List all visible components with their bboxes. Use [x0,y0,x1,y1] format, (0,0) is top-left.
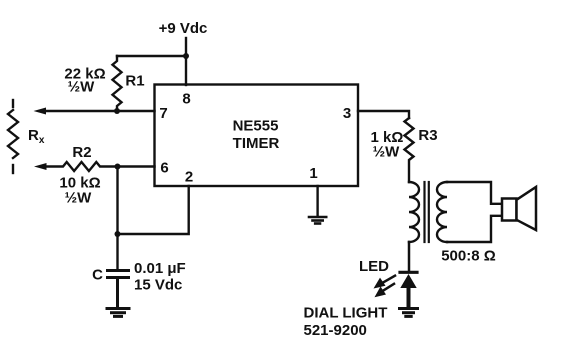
ground pin 1 [309,217,326,224]
svg-text:15 Vdc: 15 Vdc [134,277,182,294]
svg-text:0.01 μF: 0.01 μF [134,260,186,277]
arrowhead R2 wire [34,163,47,170]
node pin 2 junction [115,231,121,237]
svg-text:1: 1 [309,165,317,182]
resistor R2 [46,162,155,171]
resistor Rx [8,110,18,158]
svg-text:500:8 Ω: 500:8 Ω [441,248,496,265]
speaker LS1 driver [502,199,517,221]
LED D1 cathode bar [400,271,417,274]
IC U1 NE555 box [155,85,359,187]
svg-text:R3: R3 [418,127,437,144]
LED emission arrow lower [381,284,394,292]
svg-text:8: 8 [182,91,190,108]
ground below capacitor [107,309,129,317]
resistor R3 [405,118,414,182]
svg-text:R2: R2 [72,144,91,161]
wire pin 3 to R3 [358,111,409,118]
wire secondary top to speaker [447,182,502,204]
node R1 / pin 7 junction [114,108,120,114]
svg-text:R1: R1 [125,73,144,90]
wire supply vertical to pin 8 [185,38,187,85]
LED D1 triangle [400,274,416,288]
svg-text:2: 2 [185,169,193,186]
svg-text:TIMER: TIMER [233,135,280,152]
transformer T1 secondary winding [437,182,447,242]
resistor Rx dashed lead top [12,100,14,107]
arrowhead pin 7 wire [34,108,47,115]
resistor Rx dashed lead bottom [12,165,14,173]
svg-text:C: C [92,267,103,284]
speaker LS1 horn [517,187,537,230]
capacitor C bottom plate [108,276,129,279]
wire transformer to LED [408,242,411,271]
svg-text:DIAL LIGHT: DIAL LIGHT [304,305,388,322]
svg-text:521-9200: 521-9200 [304,322,367,339]
wire secondary bottom to speaker [447,216,502,242]
ground below LED [400,309,418,317]
LED lead to ground [407,288,411,307]
wire supply to R1 top [117,55,186,57]
svg-text:7: 7 [159,105,167,122]
node supply junction [183,53,189,59]
wire pin 2 [118,186,189,234]
node R2 / pin 6 junction [115,164,121,170]
svg-text:+9 Vdc: +9 Vdc [159,20,208,37]
wire pin 1 to ground [316,186,318,216]
svg-text:½W: ½W [373,144,401,161]
wire junction down to capacitor [116,167,118,271]
svg-text:3: 3 [343,105,351,122]
transformer T1 primary winding [409,182,419,242]
transformer core [423,182,425,242]
wire capacitor to ground [116,278,119,308]
svg-text:LED: LED [359,258,389,275]
capacitor C top plate [108,269,129,272]
svg-text:NE555: NE555 [233,117,279,134]
svg-text:½W: ½W [68,79,96,96]
resistor R1 [113,56,122,111]
svg-text:6: 6 [160,160,168,177]
wire pin 7 [45,110,155,112]
svg-text:½W: ½W [65,190,93,207]
LED emission arrow upper [381,276,396,284]
